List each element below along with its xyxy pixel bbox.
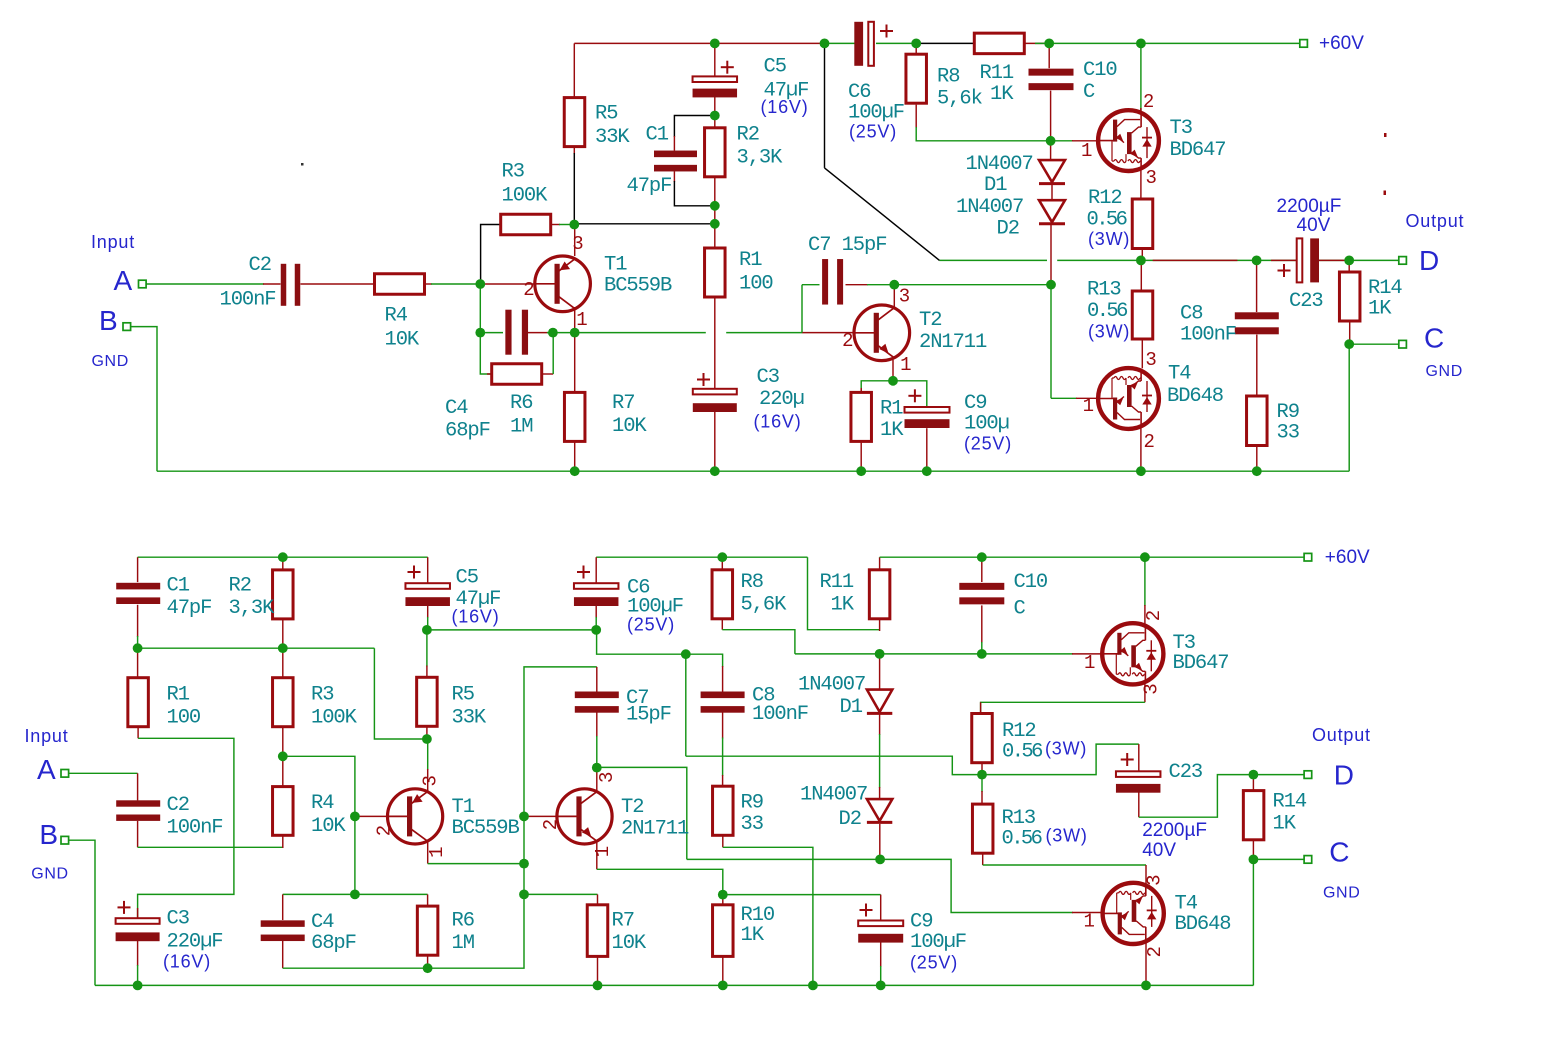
junction R8 / R11 node — [911, 39, 921, 49]
wire rail to C6 left plate — [825, 42, 855, 44]
diode D1 — [1039, 160, 1065, 184]
junction C4 right node — [548, 328, 558, 338]
svg-text:(16V): (16V) — [754, 412, 802, 432]
svg-text:33K: 33K — [595, 126, 630, 149]
terminal D bottom — [1304, 771, 1312, 779]
junction T1 emitter / R7 — [570, 328, 580, 338]
svg-text:C2: C2 — [167, 794, 189, 817]
wire T1 collector lead — [574, 224, 576, 256]
svg-text:R1: R1 — [167, 684, 190, 707]
wire R5b top lead green — [426, 630, 428, 667]
svg-text:C8: C8 — [1180, 303, 1202, 326]
wire bootstrap jog down — [596, 630, 686, 654]
wire bootstrap long line — [686, 756, 979, 774]
svg-text:T2: T2 — [919, 309, 941, 332]
svg-text:(25V): (25V) — [964, 434, 1012, 454]
wire D2 bottom lead — [1050, 225, 1052, 285]
junction T3b collector / rail — [1140, 552, 1150, 562]
wire C1b bottom lead — [137, 605, 139, 637]
svg-text:1: 1 — [1084, 910, 1095, 932]
wire T3 base node to T3 — [1051, 140, 1073, 142]
wire C7 right lead — [846, 284, 869, 286]
wire C5b top lead — [427, 557, 429, 583]
resistor R2 — [705, 128, 726, 177]
terminal A — [139, 280, 147, 288]
svg-text:10K: 10K — [612, 932, 647, 955]
wire C3b bottom lead — [137, 941, 139, 966]
wire C7b top line — [524, 667, 597, 817]
wire C1 top lead — [673, 136, 675, 151]
resistor R7 bottom — [587, 905, 608, 957]
wire R8b top lead — [721, 557, 723, 570]
wire C4b top red — [282, 894, 284, 920]
wire C9b bottom red — [880, 942, 882, 967]
capacitor C3 — [693, 373, 737, 412]
junction R11 / +60V rail — [1044, 39, 1054, 49]
svg-text:2: 2 — [1143, 610, 1165, 621]
wire rail left segment — [138, 556, 428, 558]
resistor R8 bottom — [712, 570, 733, 619]
svg-text:(3W): (3W) — [1046, 826, 1088, 846]
svg-text:3: 3 — [1146, 167, 1157, 189]
wire A to C2 left plate — [263, 283, 281, 285]
wire R12b top red — [980, 702, 982, 713]
wire T3 collector lead — [1140, 43, 1142, 112]
svg-text:BD648: BD648 — [1167, 385, 1223, 408]
resistor R2 bottom — [273, 570, 294, 619]
junction T2 emitter node — [888, 376, 898, 386]
wire C10 bottom lead to D1 — [1050, 91, 1052, 161]
svg-text:3,3K: 3,3K — [737, 147, 784, 170]
capacitor C10 bottom — [959, 583, 1004, 605]
transistor T4 bottom BD648 — [1103, 883, 1164, 944]
wire output line right of D2 wire — [1057, 259, 1297, 261]
svg-text:1N4007: 1N4007 — [800, 784, 867, 807]
resistor R8 — [906, 54, 927, 103]
wire T4 base lead — [1076, 397, 1099, 399]
capacitor C2 bottom — [116, 800, 160, 821]
svg-text:C: C — [1014, 598, 1026, 621]
wire R12 bottom lead — [1141, 248, 1143, 260]
svg-text:1M: 1M — [452, 932, 474, 955]
wire D2 node down — [1050, 285, 1052, 399]
svg-text:C: C — [1424, 323, 1444, 354]
svg-text:100K: 100K — [311, 707, 358, 730]
svg-text:(25V): (25V) — [849, 122, 897, 142]
wire emitter node left — [861, 381, 893, 393]
resistor R10 bottom — [713, 905, 734, 957]
svg-text:B: B — [99, 305, 118, 336]
svg-text:C5: C5 — [764, 55, 786, 78]
svg-text:2200µF: 2200µF — [1142, 820, 1207, 841]
wire bootstrap column down — [685, 654, 687, 756]
wire T2b base red — [524, 815, 557, 817]
resistor R12 — [1132, 199, 1153, 249]
wire R12b bottom red — [981, 763, 983, 775]
wire C node to GND bottom — [1252, 859, 1254, 985]
resistor R9b — [1247, 396, 1268, 446]
wire C node down to GND rail — [1348, 344, 1350, 471]
resistor R1 — [705, 248, 726, 297]
svg-text:1: 1 — [1081, 140, 1092, 162]
wire output node to C23b — [982, 744, 1139, 775]
svg-text:3,3K: 3,3K — [229, 597, 276, 620]
svg-text:C23: C23 — [1169, 761, 1203, 784]
svg-text:Output: Output — [1406, 211, 1465, 231]
wire T1 emitter lead — [574, 307, 576, 333]
svg-text:D2: D2 — [839, 808, 861, 831]
junction R5b / T1b emitter — [422, 734, 432, 744]
wire R9bt bottom red — [722, 835, 724, 847]
wire T2 emitter path — [597, 869, 723, 894]
wire R8 node to R11 (black) — [916, 42, 974, 44]
svg-text:BD648: BD648 — [1175, 913, 1231, 936]
wire R14 top lead — [1348, 260, 1350, 272]
svg-text:33: 33 — [741, 813, 763, 836]
svg-text:3: 3 — [899, 286, 910, 308]
svg-text:(25V): (25V) — [910, 953, 958, 973]
junction C6b bootstrap — [591, 625, 601, 635]
wire C4-R6 bottom line — [283, 894, 524, 968]
wire R2 bottom lead — [714, 177, 716, 206]
capacitor C6 — [854, 22, 893, 66]
junction R2b / rail — [278, 552, 288, 562]
wire C terminal wire bottom — [1253, 858, 1304, 860]
wire R4 right lead — [425, 283, 433, 285]
diode D1 bottom — [867, 690, 892, 714]
wire R2b bottom lead — [282, 619, 284, 648]
svg-text:3: 3 — [596, 772, 618, 783]
wire T4 emitter lead — [1140, 428, 1142, 471]
wire T3b base line — [978, 653, 1073, 655]
junction T3 collector / rail — [1136, 39, 1146, 49]
junction T2 emitter / R10 — [718, 890, 728, 900]
junction T1 collector node — [569, 220, 579, 230]
svg-text:1: 1 — [592, 846, 614, 857]
svg-text:(16V): (16V) — [452, 607, 500, 627]
junction D2 / T4 base node — [1046, 280, 1056, 290]
wire R7b top red — [597, 894, 599, 904]
junction R9 / GND — [1252, 466, 1262, 476]
wire R3b bottom lead — [282, 727, 284, 757]
wire C10b bottom red — [981, 605, 983, 643]
wire C2b to R4b — [138, 846, 283, 848]
wire C7b bottom to T2 collector — [596, 736, 598, 768]
wire R8b bottom lead — [721, 618, 723, 629]
wire C7 to T2 collector node — [867, 284, 894, 286]
svg-text:GND: GND — [31, 865, 68, 882]
svg-text:2: 2 — [540, 819, 562, 830]
svg-text:220µF: 220µF — [167, 931, 223, 954]
svg-text:2N1711: 2N1711 — [919, 331, 987, 354]
capacitor C7 — [822, 259, 843, 305]
resistor R1 bottom — [128, 678, 149, 727]
svg-text:R7: R7 — [612, 392, 634, 415]
wire to T4 base — [1051, 397, 1077, 399]
wire T2 collector to D2 node — [687, 858, 877, 860]
svg-text:1K: 1K — [1368, 298, 1392, 321]
wire output line red portion — [1153, 259, 1238, 261]
wire R1 bottom lead — [714, 297, 716, 389]
svg-text:R8: R8 — [741, 571, 763, 594]
wire T4 base jog — [880, 859, 1073, 912]
svg-text:GND: GND — [1426, 363, 1463, 380]
svg-text:1: 1 — [1083, 395, 1094, 417]
terminal B bottom — [61, 836, 69, 844]
wire R11 right lead — [1025, 42, 1050, 44]
wire R3 right to collector node — [559, 224, 574, 226]
svg-text:B: B — [39, 819, 58, 850]
wire R4b bottom lead — [282, 835, 284, 848]
wire T4b collector red — [1145, 865, 1147, 884]
svg-text:R4: R4 — [311, 792, 334, 815]
junction base / C4 line — [350, 890, 360, 900]
svg-text:Input: Input — [25, 726, 69, 746]
junction C3 / GND — [710, 466, 720, 476]
svg-text:2: 2 — [1143, 91, 1154, 113]
svg-text:1M: 1M — [510, 415, 532, 438]
svg-text:10K: 10K — [311, 815, 346, 838]
wire T2b emitter lead — [596, 841, 598, 870]
wire C9b top red — [880, 895, 882, 921]
svg-text:1K: 1K — [741, 924, 765, 947]
svg-text:1: 1 — [900, 354, 911, 376]
svg-text:R11: R11 — [980, 62, 1014, 85]
svg-text:R6: R6 — [452, 910, 474, 933]
svg-text:C4: C4 — [445, 397, 468, 420]
wire R6 right lead — [542, 373, 553, 375]
svg-text:D: D — [1334, 760, 1354, 791]
svg-text:(16V): (16V) — [761, 97, 809, 117]
wire T1 collector line — [428, 863, 524, 865]
wire input A bottom — [68, 772, 138, 774]
stray mark 3 — [301, 163, 304, 166]
svg-text:BC559B: BC559B — [604, 275, 672, 298]
junction R2b / R3b node — [278, 643, 288, 653]
junction T1b collector line — [519, 859, 529, 869]
svg-text:0.56: 0.56 — [1087, 300, 1127, 323]
svg-text:A: A — [37, 754, 56, 785]
wire C6 plus vertical (black) — [824, 43, 826, 167]
capacitor C2 — [281, 264, 301, 306]
svg-text:1N4007: 1N4007 — [798, 674, 865, 697]
wire T4b base red — [1072, 912, 1103, 914]
wire C2 to R4 — [301, 283, 375, 285]
svg-text:100nF: 100nF — [1180, 324, 1236, 347]
wire C9b to GND — [880, 966, 882, 985]
svg-text:100: 100 — [739, 273, 773, 296]
svg-text:2: 2 — [1144, 431, 1155, 453]
transistor T2 bottom 2N1711 — [557, 789, 612, 844]
wire C23b bottom red — [1138, 791, 1140, 817]
wire D1b top red — [879, 654, 881, 690]
svg-text:C: C — [1329, 837, 1349, 868]
svg-text:(3W): (3W) — [1088, 229, 1130, 249]
wire C8 top lead — [1256, 260, 1258, 312]
svg-text:BD647: BD647 — [1173, 652, 1229, 675]
svg-text:10K: 10K — [385, 328, 420, 351]
svg-text:T3: T3 — [1170, 117, 1192, 140]
junction T4 emitter / GND — [1136, 466, 1146, 476]
svg-text:(3W): (3W) — [1088, 322, 1130, 342]
svg-text:C: C — [1083, 81, 1095, 104]
svg-text:2: 2 — [1144, 946, 1166, 957]
wire T3 collector red stub — [1140, 108, 1142, 114]
terminal B — [123, 323, 131, 331]
capacitor C8 bottom — [701, 692, 745, 713]
svg-text:0.56: 0.56 — [1002, 828, 1042, 851]
wire base node to T1 — [480, 283, 535, 285]
wire R2 top lead — [714, 116, 716, 128]
junction C4 left / emitter line — [475, 328, 485, 338]
capacitor C9 bottom — [858, 904, 903, 943]
resistor R5 bottom — [417, 677, 438, 726]
wire C23b to D node — [1139, 775, 1250, 818]
wire R7b bottom lead — [597, 956, 599, 985]
transistor T3 BD647 — [1098, 110, 1159, 171]
resistor R1k emitter — [851, 392, 872, 441]
resistor R9 bottom — [713, 786, 734, 835]
resistor R4 — [375, 274, 425, 295]
resistor R11 — [974, 33, 1024, 54]
svg-text:C7 15pF: C7 15pF — [808, 234, 886, 257]
svg-text:C2: C2 — [249, 254, 271, 277]
terminal D output — [1399, 257, 1407, 265]
junction R1 top node — [710, 219, 720, 229]
svg-text:C23: C23 — [1289, 290, 1323, 313]
svg-text:GND: GND — [1323, 885, 1360, 902]
wire C7b bottom red — [596, 712, 598, 737]
wire R13 bottom lead — [1141, 339, 1143, 368]
diode D2 bottom — [867, 799, 892, 822]
wire C3b top red stub — [137, 908, 139, 918]
wire C5b to bootstrap node — [427, 617, 429, 630]
svg-text:100nF: 100nF — [220, 289, 276, 312]
svg-text:100nF: 100nF — [752, 703, 808, 726]
wire C7 left lead — [802, 284, 820, 286]
svg-text:R5: R5 — [595, 103, 617, 126]
wire T2 base lead — [802, 332, 855, 334]
svg-text:5,6k: 5,6k — [937, 87, 983, 110]
svg-text:T1: T1 — [452, 796, 475, 819]
svg-text:R14: R14 — [1273, 791, 1307, 814]
capacitor C8 — [1235, 312, 1279, 334]
wire R10 bottom lead — [722, 956, 724, 985]
wire R5b bottom lead — [426, 726, 428, 739]
capacitor C5 — [693, 61, 738, 98]
capacitor C7 bottom — [575, 692, 619, 713]
svg-text:1N4007: 1N4007 — [966, 153, 1033, 176]
svg-text:33K: 33K — [452, 707, 487, 730]
svg-text:GND: GND — [92, 353, 129, 370]
wire R5 bottom to collector node (black) — [573, 153, 575, 224]
wire R1b bottom lead — [137, 727, 139, 739]
resistor R6 bottom — [417, 906, 438, 955]
wire R5 bottom lead — [573, 147, 575, 154]
svg-text:R13: R13 — [1087, 279, 1121, 302]
svg-text:R12: R12 — [1088, 187, 1122, 210]
wire bootstrap diagonal (black) — [825, 168, 940, 261]
wire R11b bottom lead — [879, 619, 881, 632]
capacitor C5 bottom — [405, 566, 450, 607]
wire input B bottom — [68, 840, 95, 985]
junction C5b bootstrap — [422, 625, 432, 635]
wire C8b top red — [722, 666, 724, 692]
svg-text:(3W): (3W) — [1045, 739, 1087, 759]
resistor R6 — [492, 364, 542, 385]
junction C23 / R14 / D — [1344, 256, 1354, 266]
junction R9b jog / GND — [808, 981, 818, 991]
svg-text:100: 100 — [167, 707, 201, 730]
wire T2 collector node to D2 node — [894, 284, 1051, 286]
wire T3b collector green — [1144, 557, 1146, 606]
junction T4b emitter / GND — [1141, 981, 1151, 991]
wire C1b to node — [137, 636, 139, 648]
junction C5 top / rail — [710, 39, 720, 49]
wire +60V rail left segment (red) — [574, 42, 824, 44]
svg-text:D1: D1 — [984, 174, 1007, 197]
svg-text:Output: Output — [1312, 725, 1371, 745]
svg-text:40V: 40V — [1142, 840, 1176, 861]
wire R4 to base node — [431, 283, 480, 285]
svg-text:R3: R3 — [502, 161, 524, 184]
wire emitter node to C9b — [723, 894, 881, 896]
wire C10b to node — [981, 642, 983, 654]
svg-text:T2: T2 — [621, 796, 643, 819]
wire C1 bottom lead — [673, 171, 675, 182]
resistor R3 — [501, 214, 551, 235]
wire rail right segment — [880, 556, 1304, 558]
svg-text:+60V: +60V — [1319, 33, 1364, 54]
junction D2b bottom node — [875, 855, 885, 865]
wire C2b bottom lead — [137, 821, 139, 847]
wire C4-R6 left vertical — [480, 333, 492, 374]
wire T3 emitter lead — [1140, 169, 1142, 199]
junction C7 / R7 column — [519, 890, 529, 900]
wire T1b emitter lead — [427, 739, 429, 770]
svg-text:100K: 100K — [502, 185, 549, 208]
svg-text:R6: R6 — [510, 392, 532, 415]
wire T3b emitter red — [1144, 683, 1146, 702]
wire R8b jog — [722, 630, 795, 654]
svg-text:2: 2 — [374, 825, 396, 836]
wire base node down to emitter line — [479, 284, 481, 333]
resistor R5 — [564, 98, 585, 147]
svg-text:R8: R8 — [937, 66, 959, 89]
wire R8 to T3 base node — [916, 127, 1050, 141]
svg-text:+60V: +60V — [1325, 547, 1370, 568]
wire R6 left lead — [487, 373, 492, 375]
wire C6b top lead — [595, 557, 597, 583]
junction R7b / GND — [593, 981, 603, 991]
wire R1b top lead — [137, 648, 139, 678]
wire R7 bottom lead — [574, 442, 576, 472]
wire T3 emitter to R12b — [981, 702, 1145, 713]
svg-text:100µF: 100µF — [910, 931, 966, 954]
terminal C bottom — [1304, 856, 1312, 864]
svg-text:2: 2 — [523, 279, 534, 301]
svg-text:C1: C1 — [167, 575, 190, 598]
stray mark 1 — [1384, 133, 1387, 137]
svg-text:3: 3 — [572, 233, 583, 255]
wire R14b top red — [1252, 775, 1254, 791]
svg-text:BD647: BD647 — [1170, 139, 1226, 162]
svg-text:15pF: 15pF — [626, 704, 671, 727]
capacitor C10 — [1029, 69, 1074, 91]
wire C1b top lead — [137, 557, 139, 582]
resistor R12 bottom sch — [972, 714, 993, 763]
wire R13b top green — [981, 775, 983, 792]
